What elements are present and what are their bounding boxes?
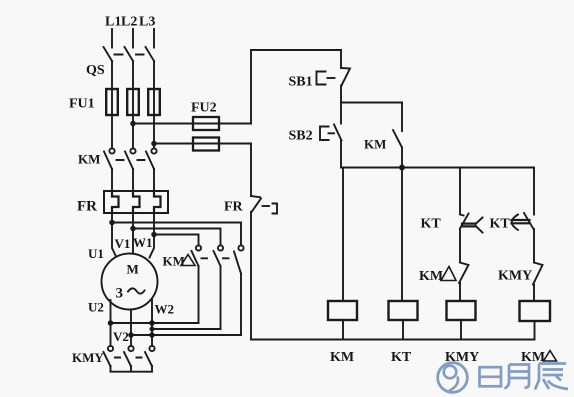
motor M 3-phase — [102, 254, 158, 310]
wire motor W2 down — [151, 299, 153, 346]
wire branch KM-delta upper — [533, 168, 535, 215]
svg-text:3: 3 — [116, 286, 124, 302]
node W1 tap — [152, 233, 156, 237]
svg-text:FR: FR — [224, 200, 244, 215]
svg-text:KMY: KMY — [498, 269, 532, 284]
svg-text:KT: KT — [391, 350, 412, 365]
wire left rail bottom — [250, 212, 252, 340]
svg-text:QS: QS — [86, 63, 105, 78]
fuse FU1 element 1 — [106, 89, 118, 115]
wire L1 drop to QS — [111, 29, 113, 48]
svg-text:KM: KM — [419, 269, 443, 284]
wire KT contact to KMY interlock — [533, 229, 535, 263]
junction V2 at delta wire F — [129, 333, 133, 337]
wire FR to motor V1 — [132, 213, 134, 254]
wire FR to motor W1 — [150, 213, 155, 258]
wire FU1 to KM phase 1 — [111, 115, 113, 148]
svg-text:FU1: FU1 — [69, 97, 95, 112]
svg-text:SB2: SB2 — [289, 129, 313, 144]
fuse FU2 element 2 — [193, 138, 219, 151]
svg-text:M: M — [127, 262, 139, 277]
wire W2 to KM-delta 2 bottom — [152, 328, 221, 330]
wire L2 drop to QS — [132, 29, 134, 48]
coil KT — [389, 301, 418, 320]
svg-text:U1: U1 — [88, 246, 104, 261]
wire KM-delta coil stub — [534, 321, 536, 340]
junction W2 crossing delta wire D — [150, 321, 154, 325]
junction KM aux at bus — [400, 166, 404, 170]
contactor KM-delta contact 3 — [234, 245, 244, 273]
wire motor U2 down — [110, 300, 112, 346]
coil KM-delta — [520, 301, 551, 321]
wire KMY star point bar — [111, 366, 153, 372]
wire junction to KM aux branch — [341, 102, 402, 104]
wire L2 to FU2 upper fuse — [133, 123, 251, 125]
fuse FU2 element 1 — [193, 117, 219, 130]
wire KM-delta 3 to V2 — [240, 274, 242, 336]
wire control bottom rail — [251, 339, 535, 341]
svg-text:KMY: KMY — [72, 350, 104, 365]
wire SB1 to junction — [340, 86, 342, 103]
interlock KM-delta NC contact — [459, 263, 469, 284]
node FU2 tap on L3 — [152, 142, 156, 146]
svg-text:KM: KM — [364, 137, 386, 152]
switch QS pole 1 — [104, 47, 113, 61]
watermark character ri — [480, 367, 502, 386]
node U1 tap — [110, 221, 114, 225]
wire SB1 top — [340, 50, 342, 68]
svg-text:U2: U2 — [88, 300, 104, 315]
svg-text:KT: KT — [490, 217, 511, 232]
switch QS linkage dashes — [115, 54, 144, 56]
coil KMY — [447, 301, 476, 320]
wire QS to FU1 phase 3 — [153, 61, 155, 89]
thermal relay FR heater 2 — [133, 191, 140, 213]
wire FR to motor U1 — [112, 213, 116, 257]
svg-text:FR: FR — [77, 199, 97, 215]
wire SB2 top — [340, 103, 342, 124]
fuse FU1 element 2 — [127, 89, 139, 115]
wire branch KM coil — [342, 168, 344, 302]
contactor KM-delta label — [163, 254, 196, 269]
svg-text:KT: KT — [421, 217, 442, 232]
pushbutton SB2 start — [320, 125, 342, 141]
wire KM-delta 2 to W2 — [220, 266, 222, 329]
svg-text:L1: L1 — [105, 15, 121, 30]
thermal relay FR heater 3 — [154, 191, 161, 213]
wire KM-delta 1 to U2 — [198, 266, 200, 323]
wire FU1 to KM phase 2 — [132, 115, 134, 148]
wire FU1 to KM phase 3 — [153, 115, 155, 148]
watermark logo — [438, 363, 468, 393]
svg-text:KM: KM — [330, 350, 354, 365]
wire QS to FU1 phase 2 — [132, 61, 134, 89]
junction W2 at delta wire E — [150, 327, 153, 330]
wire KM to FR phase 3 — [153, 169, 155, 191]
wire KM coil stub — [342, 320, 344, 340]
wire motor V2 down — [130, 310, 132, 346]
contactor KM-delta contact 2 — [214, 245, 224, 266]
wire KM to FR phase 2 — [132, 169, 134, 191]
junction U2 at delta wire — [109, 321, 113, 325]
wire L3 to FU2 lower fuse — [154, 143, 251, 145]
watermark character yue — [505, 365, 530, 389]
contactor KMY star contact 3 — [145, 346, 155, 366]
contactor KM-delta linkage dashes — [202, 257, 229, 259]
svg-text:V2: V2 — [113, 329, 129, 344]
svg-text:KM: KM — [78, 152, 100, 167]
interlock KMY NC contact — [533, 263, 543, 285]
wire to KM-delta coil — [533, 285, 535, 302]
contactor KM main contact 3 — [146, 148, 157, 169]
svg-text:L3: L3 — [139, 15, 155, 30]
wire to KMY coil — [459, 283, 461, 301]
watermark character chen — [535, 364, 568, 390]
contactor KM main contact 2 — [125, 148, 136, 169]
wire control left rail top — [251, 50, 341, 124]
wire U2 to KM-delta 1 bottom — [111, 322, 199, 324]
wire U1 to KM-delta contact 3 — [112, 223, 241, 246]
wire KT coil stub — [402, 320, 404, 340]
svg-text:W1: W1 — [133, 235, 153, 250]
timer contact KT delayed-opening — [460, 214, 483, 233]
wire W1 to KM-delta contact 1 — [154, 235, 199, 246]
interlock KM-delta label — [419, 267, 456, 285]
wire KM to FR phase 1 — [111, 169, 113, 191]
thermal relay FR box — [104, 191, 168, 213]
wire left rail middle — [250, 144, 252, 197]
wire control bus — [341, 167, 534, 169]
junction W2 crossing delta wire F — [150, 333, 154, 337]
contactor KM main contact 1 — [104, 148, 115, 169]
contactor KM-delta contact 1 — [192, 245, 202, 266]
thermal relay FR heater 1 — [112, 191, 119, 213]
svg-text:FU2: FU2 — [191, 101, 217, 116]
contactor KMY linkage dashes — [115, 357, 142, 359]
wire branch KT coil — [401, 168, 403, 302]
svg-text:V1: V1 — [115, 236, 131, 251]
wire SB2 bottom — [340, 141, 342, 168]
contactor KMY star contact 1 — [104, 346, 114, 366]
pushbutton SB1 stop — [317, 68, 351, 86]
node FU2 tap on L2 — [131, 122, 135, 126]
wire branch KMY upper — [459, 168, 461, 214]
contactor KMY star contact 2 — [124, 346, 134, 366]
svg-text:SB1: SB1 — [289, 75, 313, 90]
wire V1 to KM-delta contact 2 — [133, 229, 221, 246]
thermal relay FR NC contact — [251, 196, 277, 214]
coil KM-delta label — [521, 350, 557, 365]
wire KT contact to KM-delta interlock — [459, 230, 461, 263]
fuse FU1 element 3 — [148, 89, 160, 115]
wire QS to FU1 phase 1 — [111, 61, 113, 89]
svg-text:W2: W2 — [155, 302, 175, 317]
svg-text:L2: L2 — [121, 15, 137, 30]
timer contact KT delayed-closing — [512, 213, 534, 230]
coil KM — [328, 301, 357, 320]
wire L3 drop to QS — [153, 29, 155, 48]
switch QS pole 3 — [146, 47, 155, 61]
node V1 tap — [131, 227, 135, 231]
switch QS pole 2 — [125, 47, 134, 61]
wire V2 to KM-delta 3 bottom — [131, 334, 241, 336]
contactor KM linkage dashes — [117, 159, 145, 161]
wire KMY coil stub — [460, 320, 462, 340]
contactor KM auxiliary contact — [393, 103, 402, 168]
